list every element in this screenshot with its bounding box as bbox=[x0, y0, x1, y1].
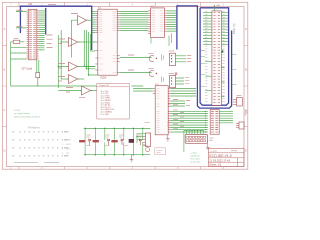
green annotation text bbox=[14, 110, 41, 119]
label +5V bbox=[217, 4, 221, 6]
frame zone numbers top bbox=[10, 3, 225, 7]
label CF left nets bbox=[17, 10, 23, 26]
wire IC1 left bus entries bbox=[92, 12, 96, 33]
label SV2 wire nets bbox=[173, 110, 184, 129]
label SV1 left pin numbers bbox=[205, 11, 207, 101]
gate T4 bbox=[69, 75, 78, 84]
wire bottom rail bbox=[84, 154, 151, 156]
IC2 right pin stubs bbox=[164, 11, 166, 31]
svg-text:auf die and: auf die and bbox=[191, 155, 200, 157]
gate T2 bbox=[69, 38, 78, 47]
IC2 body bbox=[151, 8, 165, 38]
jumper J1 below CF bbox=[36, 73, 40, 78]
pin dot C1 bbox=[156, 58, 157, 59]
diode D5 bbox=[139, 139, 141, 145]
wire pullup dotted rail top bbox=[84, 127, 151, 129]
network labels bbox=[87, 135, 148, 146]
supply VCC arrow bbox=[213, 6, 215, 11]
wire IC3 left bbox=[133, 89, 153, 92]
star mark bbox=[175, 72, 178, 75]
wire JP1 right bbox=[176, 56, 187, 62]
frame column ticks bottom bbox=[19, 167, 201, 170]
svg-text:CF1: CF1 bbox=[28, 3, 33, 6]
connector SV3 bottom bbox=[145, 133, 150, 147]
resistor R3 bbox=[93, 140, 99, 142]
wire T5 output bbox=[91, 90, 97, 92]
junction dots SV2 left bbox=[205, 111, 206, 133]
svg-text:Pinout JP?: Pinout JP? bbox=[100, 84, 111, 87]
connector JP1 pin dots bbox=[171, 55, 172, 62]
frame zone letters left bbox=[3, 27, 5, 153]
svg-text:D: D bbox=[3, 149, 5, 153]
svg-text:CF-Card: CF-Card bbox=[22, 67, 33, 71]
IC1 right pin stubs bbox=[117, 12, 120, 73]
IC2 pin names bbox=[152, 11, 163, 31]
CN1 pads row2 bbox=[187, 140, 206, 142]
diode D3 bbox=[121, 139, 123, 145]
wire T4 input bbox=[61, 78, 68, 80]
wire T1 output bbox=[87, 19, 92, 21]
label R1 bbox=[14, 38, 19, 40]
frame outer border bbox=[2, 2, 248, 169]
junction dots bottom rail bbox=[84, 154, 143, 156]
connector SV2 body bbox=[210, 110, 219, 135]
label IC3 mid nets bbox=[173, 100, 190, 106]
svg-text:C: C bbox=[3, 108, 5, 112]
supply VCC dot bbox=[214, 5, 215, 6]
label box text bbox=[157, 151, 163, 153]
connector JP3 pins bbox=[233, 100, 237, 105]
label control nets bbox=[128, 55, 134, 70]
IC3 right pin stubs bbox=[168, 89, 170, 133]
wire T3 input bbox=[58, 66, 68, 68]
wire T2 output bbox=[78, 41, 96, 43]
IC3 body bbox=[155, 86, 168, 135]
svg-text:ECO-IDE-V1.0: ECO-IDE-V1.0 bbox=[209, 154, 231, 158]
wire IC1 to IC2 data lines bbox=[120, 12, 149, 31]
title block dividers bbox=[208, 153, 244, 167]
junction dots top rail bbox=[84, 128, 143, 130]
label box below IC3 bbox=[155, 148, 166, 155]
frame row ticks left bbox=[2, 46, 6, 127]
wire IC3 to SV2 bbox=[171, 111, 208, 132]
wire long horizontal net bbox=[11, 85, 144, 87]
label SV1 sparse nets bbox=[201, 51, 237, 87]
wire IC2 down nets bbox=[151, 33, 172, 46]
diode D1 bbox=[89, 139, 91, 145]
frame column ticks top bbox=[19, 2, 201, 6]
svg-text:2x and. Pins: 2x and. Pins bbox=[191, 161, 201, 163]
title block outline bbox=[208, 148, 244, 166]
notes box title divider bbox=[97, 86, 130, 88]
diode D2 bbox=[108, 139, 110, 145]
svg-text:21.03.2022 17:43: 21.03.2022 17:43 bbox=[209, 159, 230, 163]
svg-text:8255: 8255 bbox=[101, 76, 107, 80]
wire vertical bundle right of gates bbox=[84, 30, 100, 75]
IC2 left pin stubs bbox=[148, 11, 150, 34]
bus B2 top-middle bbox=[177, 6, 232, 108]
junction dots bundle bbox=[58, 41, 90, 75]
label CN1 right bbox=[210, 138, 214, 140]
wire R1 bbox=[11, 41, 25, 43]
notes rows bbox=[101, 91, 115, 116]
crystal Q2 symbol bbox=[149, 71, 154, 77]
ground GND1 bbox=[130, 155, 134, 162]
connector CF1 pin stubs bbox=[27, 11, 39, 58]
connector SV1 body bbox=[212, 11, 222, 105]
zener Z1 dark bbox=[129, 139, 134, 143]
wire SV1 left bus entries bbox=[203, 12, 212, 90]
label bus1 bbox=[48, 4, 56, 6]
pin dot C2 bbox=[156, 73, 157, 74]
svg-text:an_sel grd: improve: an_sel grd: improve bbox=[14, 113, 30, 115]
gray pin address table bbox=[6, 131, 69, 163]
resistor R2 bbox=[79, 140, 85, 142]
svg-text:u. Goes: u. Goes bbox=[191, 152, 197, 154]
label CF lower nets bbox=[47, 35, 53, 48]
frame zone letters right bbox=[245, 27, 247, 153]
wire SV3 left bbox=[137, 134, 145, 144]
wire T4 output bbox=[78, 78, 85, 80]
label JP2 top bbox=[169, 73, 175, 75]
wire T2 input bbox=[61, 41, 68, 43]
frame inner border bbox=[7, 7, 244, 167]
gate labels bbox=[58, 14, 78, 93]
wire CF left nets bbox=[16, 12, 27, 28]
wire rail to CN1 bbox=[184, 130, 203, 152]
notes box bbox=[97, 83, 130, 119]
bus B1 branch bbox=[45, 8, 47, 35]
IC3 pin names bbox=[157, 89, 160, 133]
label above rail bbox=[145, 123, 172, 126]
wire CF right to bus branch bbox=[39, 11, 46, 34]
svg-text:5.2*1: 5.2*1 bbox=[66, 149, 70, 151]
connector CF1 pins bbox=[29, 11, 36, 58]
label JP1 vertical bbox=[162, 55, 164, 61]
wire SV1 right bus entries bbox=[221, 12, 228, 96]
ground GND3 bbox=[206, 143, 210, 149]
label JP1 wire nets bbox=[185, 55, 192, 83]
label SV1 right pin numbers bbox=[222, 11, 224, 101]
wire left lower CF bbox=[11, 42, 27, 86]
svg-text:B: B bbox=[3, 68, 5, 72]
ground GND2 bbox=[166, 135, 170, 141]
connector JP1 bbox=[170, 53, 176, 65]
wire IC2 right bus entries bbox=[167, 11, 176, 31]
wire T1 input bbox=[71, 20, 77, 57]
gate T3 bbox=[69, 62, 78, 71]
connector SV3 pins bbox=[143, 137, 146, 145]
buzzer circle bbox=[146, 148, 150, 152]
bus B3 inner loop around SV1 bbox=[200, 8, 229, 105]
resistor R4 bbox=[111, 140, 117, 142]
gate T5 bbox=[82, 86, 91, 95]
gate pin stubs red bbox=[67, 20, 93, 90]
connector JP4 pins bbox=[236, 124, 239, 128]
label JP2 vertical bbox=[162, 77, 164, 83]
connector SV2 pin pads bbox=[211, 111, 218, 132]
branch verticals bbox=[85, 128, 143, 154]
svg-text:A: A bbox=[245, 27, 247, 31]
label C2 bbox=[149, 68, 154, 70]
wire CF right lower nets bbox=[39, 36, 45, 50]
bus B1 top-left bbox=[20, 6, 91, 50]
wire CF bottom to J1 bbox=[37, 60, 39, 86]
resistor R1 left bbox=[13, 40, 20, 43]
wire T3 output bbox=[78, 66, 96, 68]
wire JP2 right bbox=[176, 78, 185, 84]
junction dots CN1 rail bbox=[186, 130, 204, 131]
IC3 right mid stubs bbox=[168, 101, 170, 104]
connector JP2 pin dots bbox=[171, 77, 172, 84]
wire T5 input bbox=[58, 90, 81, 92]
connector SV1 pin pads bbox=[213, 12, 220, 102]
connector CF1 body bbox=[28, 9, 37, 60]
gate T1 bbox=[78, 16, 87, 26]
svg-text:IDE[0..15]: IDE[0..15] bbox=[234, 23, 236, 34]
svg-text:Sheet: 1/1: Sheet: 1/1 bbox=[209, 163, 221, 167]
label C1 bbox=[149, 53, 154, 55]
svg-text:N: J1 B: N: J1 B bbox=[14, 110, 21, 112]
connector JP4 right bbox=[239, 122, 244, 129]
svg-text:21 = GND: 21 = GND bbox=[101, 114, 110, 116]
svg-text:D: D bbox=[245, 149, 247, 153]
svg-text:A: A bbox=[3, 27, 5, 31]
left net labels bbox=[62, 140, 71, 156]
junction dots SV3 bbox=[136, 136, 137, 137]
svg-text:word can finish whole of some: word can finish whole of some br bbox=[14, 117, 41, 119]
IC1 left pin stubs bbox=[95, 12, 98, 71]
wire SV2 right bbox=[219, 111, 233, 123]
D-sub connector CN1 bbox=[185, 134, 207, 143]
label JP1 top bbox=[169, 50, 175, 52]
IC1 body bbox=[98, 9, 117, 75]
label JP3 top bbox=[237, 95, 242, 97]
connector JP2 bbox=[170, 75, 176, 87]
svg-text:Pin a. Bord: Pin a. Bord bbox=[191, 158, 200, 160]
label under T5 bbox=[79, 97, 85, 99]
svg-text:B: B bbox=[245, 68, 247, 72]
svg-text:PinAddress: PinAddress bbox=[28, 126, 41, 129]
wire IC3 right upper bbox=[171, 89, 196, 107]
svg-text:1**L: 1**L bbox=[66, 153, 69, 155]
wire vertical address lines bbox=[58, 30, 61, 88]
connector JP3 right bbox=[237, 98, 243, 107]
green note text right bottom bbox=[191, 152, 201, 163]
svg-text:CO-PIN2: CO-PIN2 bbox=[210, 151, 217, 153]
CN1 pads row1 bbox=[187, 136, 206, 138]
frame row ticks right bbox=[244, 46, 248, 127]
IC3 left pin stubs bbox=[153, 89, 155, 94]
crystal Q1 symbol bbox=[149, 56, 154, 62]
label right frame vertical bbox=[245, 110, 247, 116]
wire IC1 right control nets bbox=[120, 58, 152, 73]
IC1 pin names bbox=[99, 12, 116, 73]
frame zone numbers bottom bbox=[10, 166, 225, 170]
